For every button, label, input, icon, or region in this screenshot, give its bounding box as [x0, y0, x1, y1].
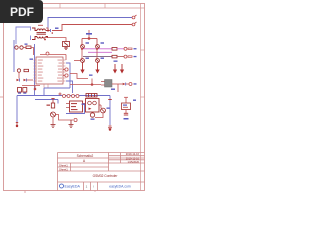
wire output red: [70, 84, 122, 92]
net label 5V: [55, 28, 59, 29]
wire bus M1 magenta: [83, 49, 112, 53]
PDF badge: [0, 0, 43, 23]
power flag PF4: [121, 64, 124, 73]
regulator U2: [66, 101, 85, 112]
sheet border frame: [0, 4, 145, 194]
transistor Q1: [81, 42, 89, 48]
wire IC left rail blue: [34, 44, 36, 96]
wire bus M2 dark: [83, 56, 112, 58]
port P7: [114, 55, 137, 62]
svg-text:easyEDA.com: easyEDA.com: [109, 185, 131, 189]
port P1: [132, 15, 136, 19]
transistor Q8: [99, 105, 110, 113]
svg-text:EasyEDA: EasyEDA: [65, 185, 81, 189]
wire AC input blue: [16, 27, 31, 44]
resistor R5: [47, 103, 55, 108]
optocoupler U3: [82, 99, 100, 113]
net label VBAT: [86, 30, 92, 39]
power flag PF5: [51, 98, 54, 103]
wire Q6 emitter: [53, 115, 73, 125]
label T1: [38, 25, 43, 26]
port P3: [40, 52, 66, 60]
transistor Q3: [81, 58, 89, 63]
svg-text:PDF: PDF: [10, 5, 34, 19]
diode D2: [17, 69, 28, 72]
transistor Q4: [96, 58, 104, 63]
connector J1: [63, 95, 80, 98]
resistor R14: [86, 94, 97, 98]
wire U1 right blue: [66, 63, 73, 93]
resistor R10: [25, 44, 32, 49]
svg-text:2019-12-16: 2019-12-16: [126, 152, 140, 156]
junction node C: [59, 93, 61, 95]
wire transformer secondary: [46, 28, 66, 42]
power flag PF1: [81, 63, 84, 73]
ground GND2: [51, 125, 56, 128]
ground GND1: [64, 47, 68, 50]
title block: [58, 153, 145, 191]
wire U2 bottom blue: [66, 104, 85, 114]
wire H-bridge top: [82, 38, 97, 45]
svg-text:GSM32 Controler: GSM32 Controler: [93, 174, 119, 178]
power flag PF3: [114, 64, 117, 73]
wire node B: [19, 72, 40, 85]
svg-text:2019-12-16: 2019-12-16: [126, 156, 140, 160]
port P8: [129, 83, 137, 86]
fuse F1: [63, 42, 70, 47]
port P6: [124, 47, 137, 50]
ground GND3: [69, 120, 74, 128]
wire battery stub: [34, 86, 36, 90]
wire left rail blue: [13, 40, 15, 72]
op-amp U1: [30, 57, 66, 88]
antenna E1: [16, 123, 18, 127]
wire VIN top red: [52, 25, 133, 31]
wire bus bottom blue: [17, 88, 110, 122]
wire right rail blue: [109, 96, 111, 126]
wire H-bridge mid: [74, 48, 98, 61]
relay K1: [101, 80, 112, 88]
diode D4: [123, 83, 130, 86]
port P4: [63, 68, 68, 71]
svg-text:1/15/2020: 1/15/2020: [127, 160, 139, 164]
wire node A: [23, 48, 33, 56]
svg-text:Schematic2: Schematic2: [77, 154, 94, 158]
crystal X1: [122, 97, 131, 113]
transistor Q5: [15, 46, 23, 49]
wire VCC top blue: [48, 18, 133, 31]
diode D1: [48, 29, 54, 34]
net label NL1: [111, 89, 115, 90]
transformer T1: [32, 28, 48, 40]
wire Q8 net: [95, 113, 103, 118]
resistor R11: [18, 88, 27, 94]
transistor Q7: [90, 113, 94, 120]
net label NL2: [133, 100, 136, 101]
svg-text:Sheet1: Sheet1: [59, 167, 68, 171]
resistor R12: [112, 48, 124, 51]
logo EasyEDA: [60, 184, 81, 189]
capacitor C5: [108, 100, 112, 131]
port P9: [74, 118, 77, 121]
transistor Q2: [96, 42, 104, 48]
port P2: [132, 22, 136, 26]
wire sense red: [70, 74, 93, 85]
port P5: [63, 74, 68, 77]
capacitor C6: [124, 113, 129, 119]
power flag PF2: [96, 63, 99, 73]
diode D3: [17, 79, 27, 82]
resistor R13: [112, 55, 124, 58]
transistor Q6: [51, 108, 56, 117]
